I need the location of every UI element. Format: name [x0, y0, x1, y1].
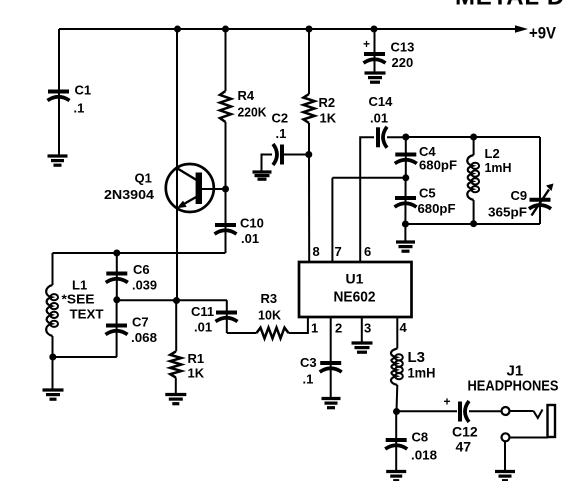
- svg-text:1mH: 1mH: [408, 365, 436, 381]
- transistor Q1 collector diagonal: [178, 169, 197, 181]
- pin 7 wire: [331, 178, 333, 262]
- transistor Q1 base bar: [196, 173, 202, 205]
- svg-text:+9V: +9V: [529, 24, 557, 43]
- wire C9 branch: [539, 137, 541, 224]
- transistor Q1 emitter diagonal: [180, 197, 198, 207]
- ground under pin 3: [352, 343, 373, 352]
- wire jack sleeve to ground: [504, 441, 506, 471]
- capacitor C7: [106, 326, 128, 335]
- capacitor C11: [216, 313, 238, 322]
- svg-text:220K: 220K: [238, 105, 268, 120]
- wire R4 top: [225, 29, 227, 91]
- svg-text:C7: C7: [132, 315, 149, 330]
- pin 3 wire: [361, 317, 363, 343]
- wire node to C12: [397, 410, 458, 412]
- svg-text:1mH: 1mH: [485, 160, 512, 175]
- svg-text:.039: .039: [132, 278, 157, 293]
- transistor Q1 emitter arrow: [177, 201, 187, 209]
- svg-text:C8: C8: [412, 430, 429, 445]
- svg-text:10K: 10K: [258, 308, 282, 323]
- wire tank bottom rail: [405, 223, 540, 225]
- svg-text:.1: .1: [303, 372, 314, 387]
- capacitor C4: [395, 155, 417, 164]
- capacitor C9 variable: [529, 200, 551, 209]
- svg-text:C13: C13: [391, 40, 415, 55]
- svg-text:C12: C12: [452, 424, 478, 440]
- wire C6 column: [116, 253, 118, 300]
- svg-text:R1: R1: [188, 351, 205, 366]
- wire C2 to R2 node: [284, 154, 309, 156]
- wire +9V top rail: [59, 28, 516, 30]
- svg-text:C1: C1: [75, 83, 92, 98]
- svg-text:1: 1: [311, 321, 318, 336]
- junction L1-bottom: [49, 354, 56, 361]
- svg-text:NE602: NE602: [334, 290, 376, 306]
- svg-text:*SEE: *SEE: [62, 292, 95, 307]
- wire L2 top lead: [473, 137, 475, 155]
- capacitor C13: [364, 54, 386, 63]
- junction L3/C8/C12: [393, 408, 400, 415]
- capacitor C3: [320, 363, 342, 372]
- svg-text:.018: .018: [411, 448, 437, 463]
- svg-text:.1: .1: [74, 101, 85, 116]
- svg-text:6: 6: [364, 244, 371, 259]
- wire tank ground stub: [404, 224, 406, 242]
- wire R4 to base node: [225, 122, 227, 253]
- resistor R3: [257, 328, 289, 339]
- junction C6/C7 midpoint: [113, 296, 120, 303]
- transistor Q1 circle: [166, 164, 214, 212]
- ground under C1: [48, 156, 68, 165]
- junction tank bottom L2: [470, 220, 477, 227]
- wire R2 top: [308, 29, 310, 94]
- wire C14 to tank: [387, 136, 406, 138]
- resistor R4: [220, 91, 231, 122]
- svg-text:.068: .068: [131, 330, 157, 345]
- capacitor C10: [215, 225, 237, 234]
- svg-text:J1: J1: [507, 363, 524, 380]
- ground tank: [396, 242, 415, 251]
- wire R3 to pin1: [289, 317, 308, 333]
- svg-text:4: 4: [400, 320, 408, 335]
- jack plug tip spring: [534, 410, 543, 419]
- svg-text:L1: L1: [72, 278, 87, 293]
- svg-text:C2: C2: [272, 111, 289, 126]
- ground under C13: [365, 73, 386, 82]
- svg-text:R3: R3: [261, 291, 278, 306]
- wire R1 to ground: [175, 378, 177, 395]
- svg-text:C11: C11: [191, 304, 214, 319]
- svg-text:C9: C9: [511, 188, 528, 203]
- svg-text:C5: C5: [419, 186, 436, 201]
- ground under C3: [322, 399, 341, 408]
- wire C11 to R3: [227, 332, 257, 334]
- junction emitter/netB: [173, 297, 180, 304]
- ground for C2: [253, 172, 272, 179]
- jack J1 tip terminal circle: [502, 407, 510, 415]
- wire jack sleeve to body: [510, 437, 549, 439]
- jack J1 sleeve terminal circle: [502, 433, 510, 441]
- junction base/R4/C10: [222, 186, 229, 193]
- junction C2/R2/pin8: [305, 151, 312, 158]
- svg-text:.01: .01: [370, 111, 388, 126]
- capacitor C12: [460, 401, 469, 422]
- svg-text:HEADPHONES: HEADPHONES: [468, 379, 559, 395]
- svg-text:47: 47: [456, 439, 472, 455]
- ground under C8: [386, 472, 406, 481]
- jack plug body: [548, 405, 556, 437]
- svg-text:METAL D: METAL D: [455, 0, 565, 11]
- svg-text:C10: C10: [240, 216, 264, 231]
- wire Q1 base lead: [202, 188, 226, 190]
- wire C8 drop: [395, 412, 397, 472]
- wire C7 column: [116, 300, 118, 357]
- wire jack tip to plug: [510, 410, 534, 412]
- junction tank bottom C5: [402, 221, 409, 228]
- wire L1 top drop: [52, 253, 54, 285]
- wire C4 column: [405, 137, 407, 178]
- wire netB corner to C11: [226, 300, 228, 333]
- pin 2 wire: [330, 317, 332, 399]
- svg-text:7: 7: [335, 244, 342, 259]
- svg-text:+: +: [444, 395, 451, 409]
- junction rail-R4: [222, 26, 229, 33]
- svg-text:3: 3: [364, 321, 371, 336]
- resistor R2: [303, 94, 314, 123]
- svg-text:680pF: 680pF: [418, 201, 456, 216]
- svg-text:C6: C6: [133, 262, 150, 277]
- svg-text:C3: C3: [300, 355, 317, 370]
- wire C13 top: [374, 29, 376, 73]
- junction rail-R2: [306, 26, 313, 33]
- capacitor C8: [385, 440, 407, 449]
- svg-text:1K: 1K: [320, 111, 337, 126]
- inductor L3: [391, 349, 397, 386]
- svg-text:365pF: 365pF: [488, 205, 527, 220]
- svg-text:C14: C14: [369, 94, 394, 109]
- svg-text:2N3904: 2N3904: [104, 187, 155, 202]
- wire tank top rail: [406, 136, 540, 138]
- resistor R1: [170, 352, 181, 378]
- ground under R1: [165, 395, 186, 404]
- svg-text:1K: 1K: [188, 366, 205, 381]
- junction netA-C6 top: [113, 250, 120, 257]
- capacitor C9 arrow: [532, 190, 550, 216]
- capacitor C14: [378, 127, 387, 148]
- wire left drop to C1: [58, 29, 60, 156]
- wire C10 bottom to crossover line: [53, 252, 226, 254]
- wire L3 to node: [396, 385, 399, 412]
- inductor L1: [46, 285, 52, 336]
- +9V arrowhead: [515, 25, 528, 33]
- wire L1 bottom to C7 bottom: [53, 356, 117, 358]
- wire C12 to jack tip: [469, 410, 502, 412]
- svg-text:TEXT: TEXT: [70, 307, 104, 322]
- wire netB horizontal: [117, 299, 227, 301]
- wire pin7 to divider: [332, 177, 405, 179]
- junction tank top C4: [402, 134, 409, 141]
- inductor L2: [467, 155, 473, 200]
- capacitor C5: [395, 198, 417, 207]
- pin 8 wire: [308, 155, 310, 263]
- svg-text:8: 8: [313, 244, 320, 259]
- svg-text:Q1: Q1: [135, 171, 152, 186]
- junction rail-collector: [174, 26, 181, 33]
- svg-text:2: 2: [335, 321, 342, 336]
- svg-text:L2: L2: [485, 146, 500, 161]
- junction C4/C5/pin7: [402, 174, 409, 181]
- capacitor C1: [48, 92, 70, 101]
- wire L2 bottom lead: [473, 200, 475, 224]
- svg-text:220: 220: [392, 55, 414, 70]
- pin 6 wire: [360, 137, 374, 262]
- ground under L1: [43, 390, 64, 399]
- junction tank top L2: [470, 134, 477, 141]
- wire Q1 collector/emitter column: [176, 29, 178, 301]
- wire emitter node to R1: [175, 301, 177, 352]
- svg-text:L3: L3: [408, 349, 426, 366]
- ground under J1: [495, 472, 515, 481]
- pin 4 wire: [396, 317, 398, 349]
- svg-text:R4: R4: [238, 88, 255, 103]
- wire R2 to C2 node: [308, 123, 310, 155]
- capacitor C6: [106, 274, 128, 283]
- op-amp U1 box: [299, 262, 412, 317]
- wire C2 ground riser: [262, 155, 273, 173]
- junction rail-C13: [371, 26, 378, 33]
- svg-text:+: +: [363, 37, 370, 51]
- svg-text:U1: U1: [346, 271, 364, 287]
- svg-text:.01: .01: [194, 320, 212, 335]
- wire L1 bottom: [52, 336, 54, 390]
- capacitor C2: [273, 144, 282, 165]
- svg-text:R2: R2: [319, 95, 336, 110]
- svg-text:.01: .01: [241, 231, 259, 246]
- svg-text:680pF: 680pF: [419, 158, 457, 173]
- svg-text:.1: .1: [276, 126, 287, 141]
- wire C5 column: [404, 178, 406, 224]
